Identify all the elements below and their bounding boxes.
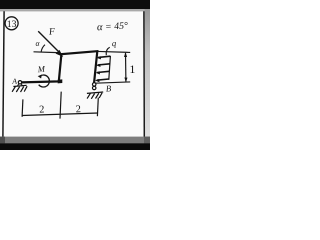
bottom band darker right square — [144, 137, 150, 144]
dim 1 top arrowhead — [124, 52, 127, 57]
bottom dimension line — [22, 113, 98, 116]
dim 1 bottom arrowhead — [124, 78, 127, 83]
alpha angle arc — [41, 45, 45, 52]
svg-text:13: 13 — [7, 19, 17, 30]
support A legs — [17, 84, 22, 87]
moment M arrowhead — [38, 75, 42, 79]
q arrow 1 — [98, 56, 110, 57]
paper background — [0, 0, 150, 150]
dim 1 top extension line — [98, 51, 130, 52]
svg-text:F: F — [48, 26, 56, 37]
support A pin circle — [18, 81, 21, 84]
right border line — [143, 11, 145, 137]
force F arrowhead — [56, 50, 64, 57]
svg-text:2: 2 — [39, 104, 45, 115]
top gray transition row — [0, 9, 150, 11]
frame members polyline A-corner-top-corner-B — [22, 51, 98, 82]
support A ground line — [13, 85, 26, 86]
q leader curve — [106, 47, 110, 55]
support B hatching — [87, 93, 102, 99]
q arrow 2 — [98, 64, 110, 65]
svg-text:2: 2 — [75, 104, 81, 115]
q arrow 4 — [97, 79, 109, 80]
support B ground line — [87, 92, 103, 93]
left border line — [3, 11, 4, 137]
bottom dim right tick — [96, 98, 99, 117]
svg-text:1: 1 — [129, 62, 135, 76]
dim 1 bottom extension line — [95, 82, 130, 83]
dim 1 line — [125, 53, 127, 81]
svg-text:= 45°: = 45° — [105, 20, 128, 32]
top black band — [0, 0, 150, 9]
force F line — [38, 31, 60, 53]
frame corner blob — [58, 79, 63, 83]
problem number circle 13 — [5, 17, 18, 30]
bottom band darker left square — [0, 137, 5, 144]
bottom gray band — [0, 137, 150, 144]
moment M arc — [39, 75, 50, 87]
support B roller circles — [92, 83, 96, 87]
support A hatching — [12, 86, 27, 92]
bottom dim middle tick — [60, 92, 61, 119]
bottom black band — [0, 143, 150, 150]
q arrow 3 — [97, 71, 109, 72]
alpha reference line — [34, 51, 58, 54]
distributed load q tail line — [109, 56, 111, 80]
svg-text:A: A — [11, 77, 18, 86]
bottom dim left tick — [21, 99, 24, 116]
